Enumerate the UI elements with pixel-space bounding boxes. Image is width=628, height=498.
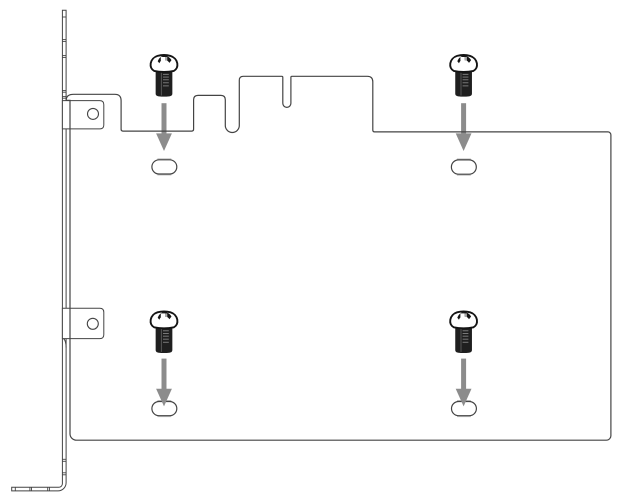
mounting plate fill (outline stroked later on top): [66, 76, 611, 440]
slot hole top-left: [157, 158, 171, 160]
arrow top-right: [456, 103, 472, 151]
arrow top-left: [156, 103, 172, 151]
upper tab hole: [88, 108, 99, 119]
upper mounting tab: [62, 101, 103, 129]
screw bottom-left: [151, 311, 178, 353]
arrow bottom-left: [156, 359, 172, 407]
bend fillet below lower tab: [64, 339, 67, 348]
mounting plate outline (drawn over arrows): [66, 76, 611, 440]
lower tab hole: [87, 318, 98, 329]
slot hole bottom-right: [457, 400, 471, 402]
screw bottom-right: [450, 311, 477, 353]
bracket (L-shaped side strip with foot): [12, 10, 66, 491]
arrow bottom-right: [456, 359, 472, 407]
bracket bend tick marks (vertical strip): [62, 17, 66, 475]
lower mounting tab: [62, 308, 103, 338]
bracket foot tick marks: [15, 487, 49, 491]
slot hole bottom-left: [157, 400, 171, 402]
screw top-left: [151, 55, 178, 97]
screw top-right: [450, 55, 477, 97]
slot hole top-right: [457, 158, 471, 160]
